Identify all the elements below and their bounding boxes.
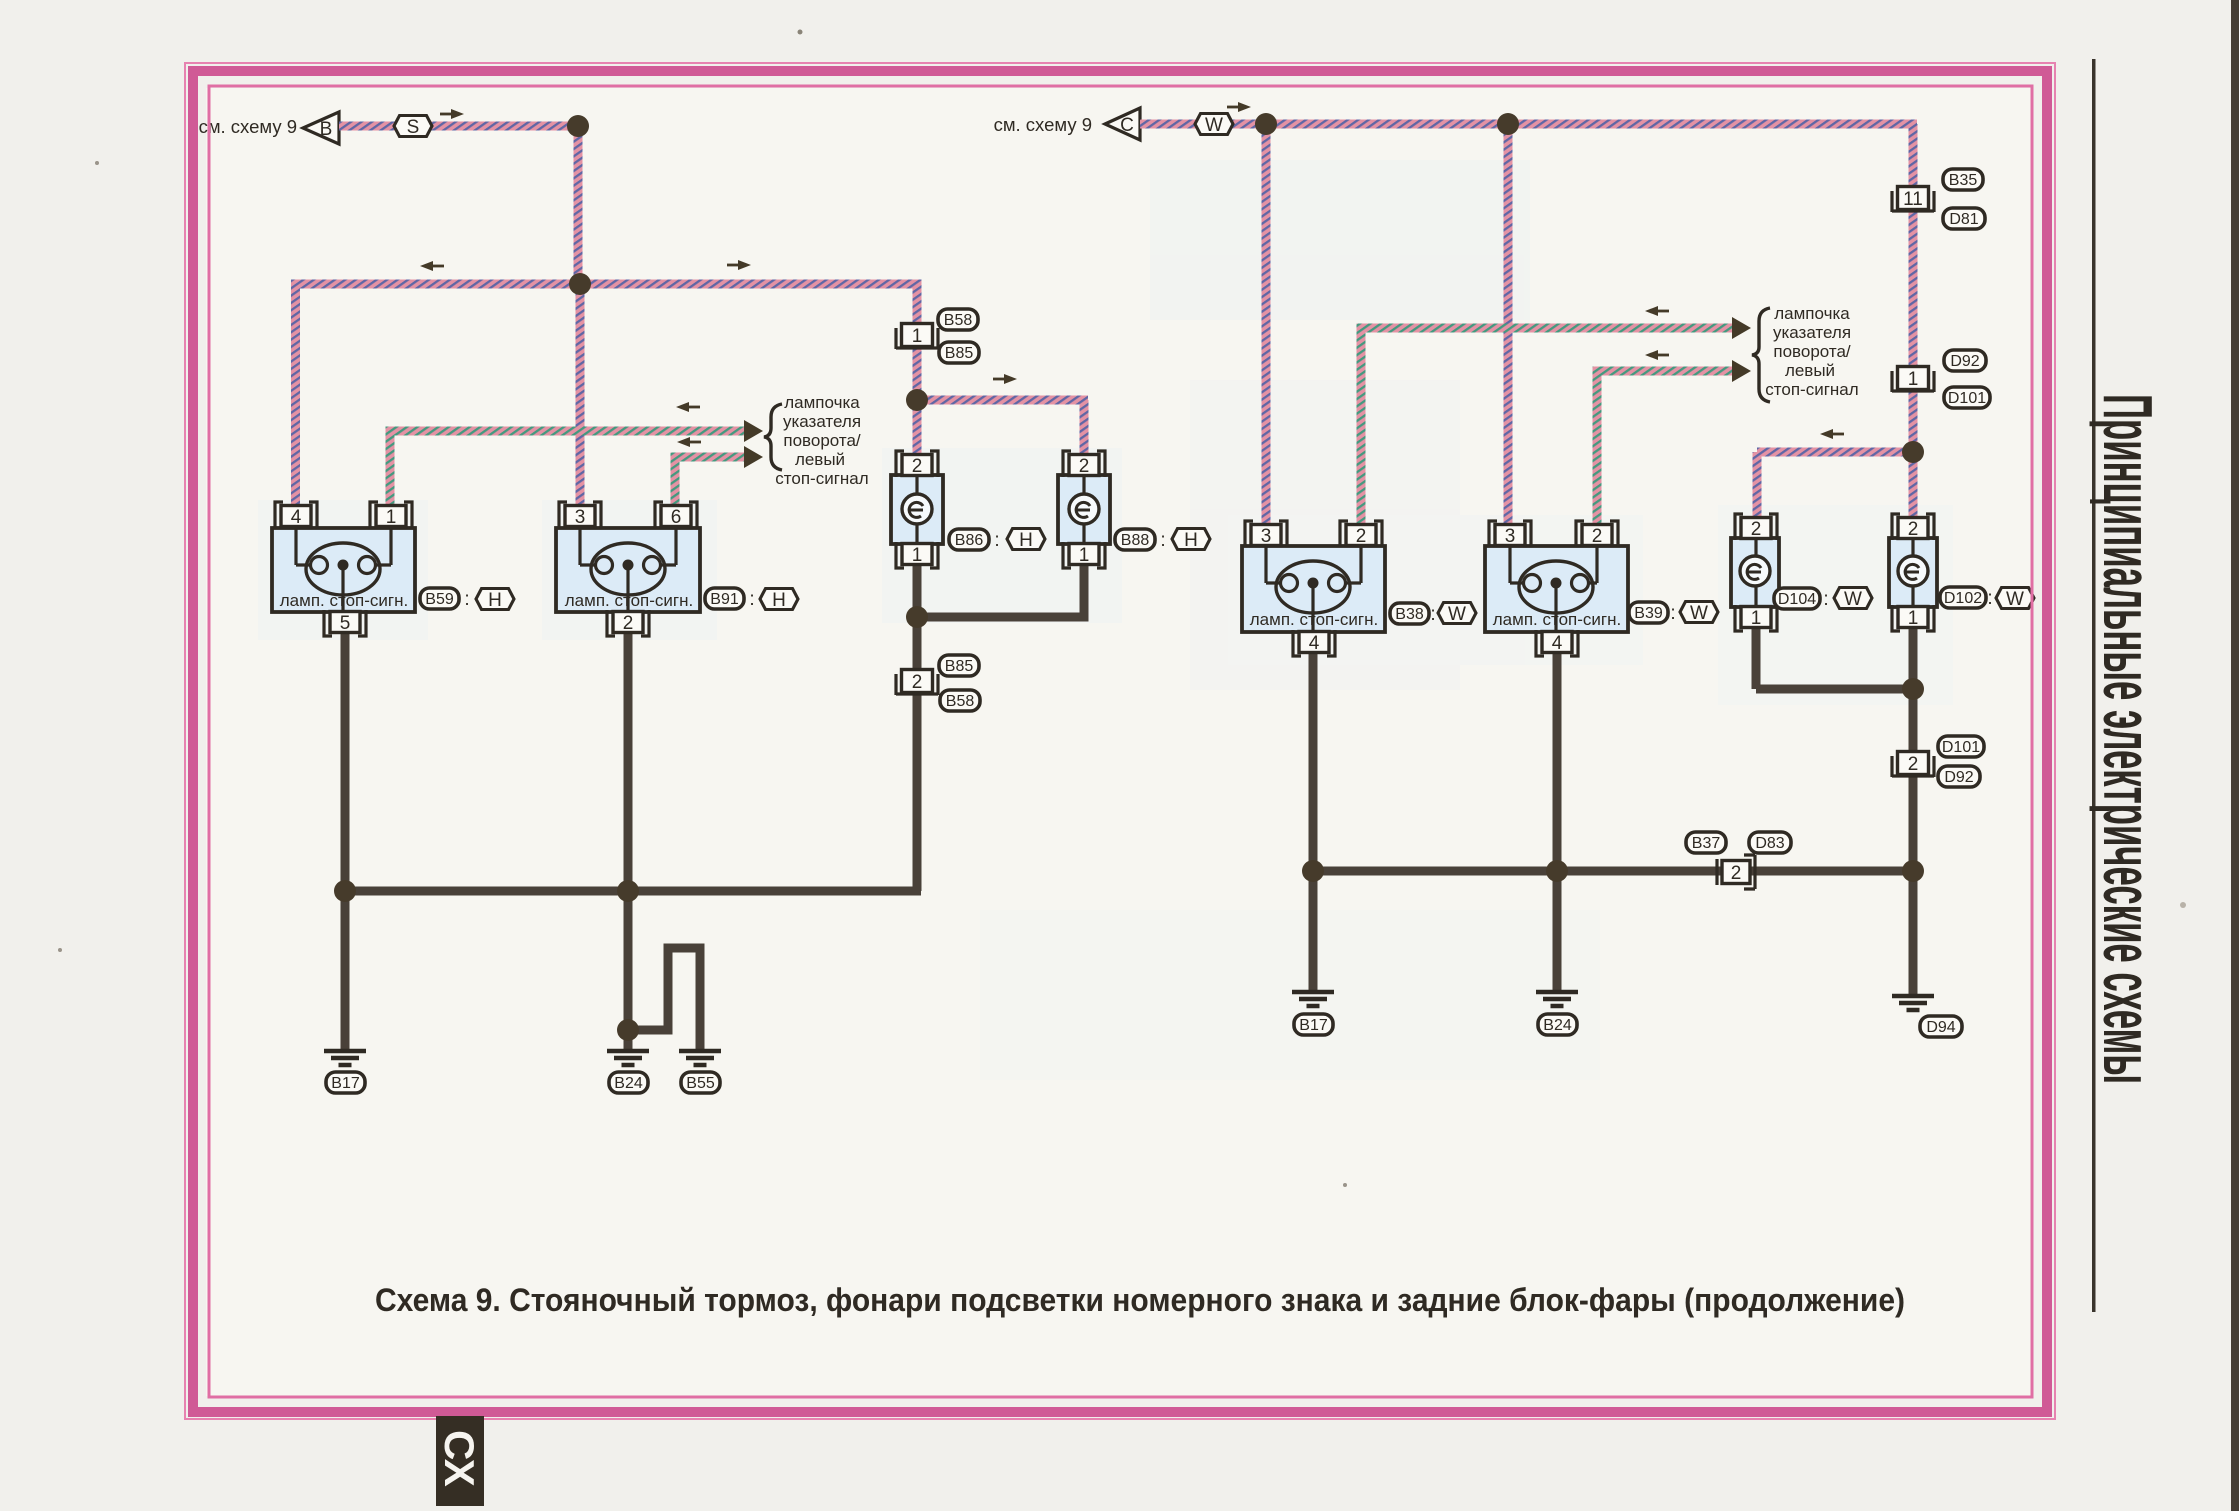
svg-text:C: C bbox=[1120, 115, 1134, 136]
node J6 bbox=[617, 880, 639, 902]
svg-text:B: B bbox=[320, 119, 333, 140]
pin 6 of B91 bbox=[655, 502, 697, 528]
ground B24 (left) bbox=[607, 1051, 649, 1065]
wire: left branch down to B59 pin 4 bbox=[291, 284, 300, 508]
pin 2 of D102 bbox=[1892, 514, 1934, 540]
node JE bbox=[1902, 860, 1924, 882]
pin 3 of B39 bbox=[1489, 521, 1531, 547]
harness hexagon H for B59 bbox=[476, 589, 514, 612]
svg-text:4: 4 bbox=[291, 507, 302, 528]
svg-text:B35: B35 bbox=[1949, 172, 1978, 189]
black wire: connector down to JE bbox=[1909, 773, 1918, 871]
lamp unit B91 (stop-signal lamp) bbox=[556, 528, 700, 612]
svg-text:стоп-сигнал: стоп-сигнал bbox=[775, 469, 868, 488]
pink frame inner thin line bbox=[209, 86, 2032, 1397]
svg-text:1: 1 bbox=[386, 507, 397, 528]
wire: JW2 down to B39 pin 3 bbox=[1504, 124, 1513, 525]
svg-text:B24: B24 bbox=[1543, 1017, 1572, 1034]
black wire: J4 down to connector B85/B58 bbox=[913, 617, 922, 673]
ground B17 (left) bbox=[324, 1051, 366, 1065]
svg-text:D94: D94 bbox=[1926, 1019, 1955, 1036]
svg-text:2: 2 bbox=[1592, 526, 1603, 547]
wire: right column down through connectors to D102 pin 2 bbox=[1909, 124, 1918, 520]
wire: top feed from C to right corner (pink/blue) bbox=[1140, 120, 1917, 129]
svg-text:указателя: указателя bbox=[783, 412, 861, 431]
wire: right branch down through connector B58/B85 to J3 bbox=[913, 284, 922, 402]
arrow left above pin-1 wire bbox=[676, 402, 700, 412]
scanner dark right edge bbox=[2231, 0, 2239, 1511]
svg-text:6: 6 bbox=[671, 507, 682, 528]
svg-text:3: 3 bbox=[1261, 526, 1272, 547]
background paper inside frame bbox=[206, 88, 2033, 1396]
harness hexagon W for D102 bbox=[1996, 588, 2034, 611]
svg-text:см. схему 9: см. схему 9 bbox=[994, 114, 1092, 135]
svg-text:S: S bbox=[407, 117, 420, 138]
brace grouping lamp destination (right) bbox=[1752, 308, 1770, 402]
pin 2 of B39 bbox=[1576, 521, 1618, 547]
svg-text:B17: B17 bbox=[331, 1075, 360, 1092]
destination label text (left) bbox=[775, 393, 868, 488]
svg-text:1: 1 bbox=[1908, 369, 1919, 390]
svg-text:W: W bbox=[1844, 589, 1862, 610]
label D83 bbox=[1749, 832, 1791, 853]
net marker hexagon W bbox=[1195, 114, 1233, 137]
svg-text:2: 2 bbox=[912, 672, 923, 693]
pin 4 of B39 bbox=[1536, 630, 1578, 656]
connector label B86 bbox=[949, 529, 989, 550]
label B37 bbox=[1686, 832, 1726, 853]
svg-text:ламп. стоп-сигн.: ламп. стоп-сигн. bbox=[565, 591, 693, 610]
faint scan bleed-through blobs (decorative) bbox=[258, 160, 1953, 1080]
node J5 bbox=[334, 880, 356, 902]
svg-text:B24: B24 bbox=[614, 1075, 643, 1092]
svg-text:СХ: СХ bbox=[436, 1430, 483, 1487]
svg-text:5: 5 bbox=[340, 613, 351, 634]
harness hexagon W for D104 bbox=[1834, 588, 1872, 611]
wire: B91 pin 6 up and right to stop-lamp arrow (pink/green) bbox=[671, 457, 680, 508]
svg-text:B59: B59 bbox=[425, 591, 454, 608]
svg-text:ламп. стоп-сигн.: ламп. стоп-сигн. bbox=[1493, 610, 1621, 629]
svg-text:B88: B88 bbox=[1121, 532, 1150, 549]
harness hexagon W for B39 bbox=[1680, 602, 1718, 625]
wire: J1 down to J2 bbox=[574, 126, 583, 284]
pin 2 of B86 bbox=[896, 451, 938, 477]
svg-text:Схема 9. Стояночный тормоз, фо: Схема 9. Стояночный тормоз, фонари подсв… bbox=[375, 1282, 1905, 1318]
svg-text:2: 2 bbox=[1079, 456, 1090, 477]
net marker hexagon S bbox=[394, 116, 432, 139]
arrow left on distribution wire bbox=[420, 261, 444, 271]
svg-text:поворота/: поворота/ bbox=[783, 431, 861, 450]
lamp unit B39 (stop-signal lamp) bbox=[1485, 546, 1628, 632]
svg-text::: : bbox=[1670, 603, 1675, 624]
connector label B88 bbox=[1115, 529, 1155, 550]
svg-text:2: 2 bbox=[1908, 519, 1919, 540]
black wire: J4 link horizontal bbox=[917, 613, 1089, 622]
svg-text:B17: B17 bbox=[1299, 1017, 1328, 1034]
svg-text::: : bbox=[1823, 589, 1828, 610]
svg-text:B37: B37 bbox=[1692, 835, 1721, 852]
svg-text:D102: D102 bbox=[1944, 590, 1982, 607]
svg-text:3: 3 bbox=[575, 507, 586, 528]
node J1 bbox=[567, 115, 589, 137]
node JW1 bbox=[1255, 113, 1277, 135]
svg-text:поворота/: поворота/ bbox=[1773, 342, 1851, 361]
off-page triangle C bbox=[1105, 108, 1140, 140]
label D92 bbox=[1944, 350, 1986, 371]
pink frame outer thin line bbox=[185, 63, 2055, 1419]
license lamp B86 bbox=[891, 475, 943, 544]
node J4 bbox=[906, 606, 928, 628]
svg-text:H: H bbox=[1019, 530, 1033, 551]
inline connector 1 D92:D101 bbox=[1892, 367, 1934, 393]
black ground bus (left) bbox=[345, 887, 921, 896]
node bus-B39 bbox=[1546, 860, 1568, 882]
harness hexagon H for B86 bbox=[1007, 529, 1045, 552]
wire: B39 pin 2 up and right to stop-lamp arrow (pink/green) bbox=[1593, 371, 1602, 525]
pin 2 of B38 bbox=[1340, 521, 1382, 547]
black ground bus (right) bbox=[1313, 867, 1913, 876]
svg-text:W: W bbox=[1448, 604, 1466, 625]
svg-text:стоп-сигнал: стоп-сигнал bbox=[1765, 380, 1858, 399]
svg-text:W: W bbox=[2006, 589, 2024, 610]
svg-text:4: 4 bbox=[1552, 633, 1563, 654]
node JW2 bbox=[1497, 113, 1519, 135]
connector label B38 bbox=[1390, 603, 1429, 624]
connector label D104 bbox=[1774, 588, 1820, 609]
svg-text:B86: B86 bbox=[955, 532, 984, 549]
svg-text:B85: B85 bbox=[945, 658, 974, 675]
label B85 (upper) bbox=[939, 655, 979, 676]
ground B24 (right) bbox=[1536, 992, 1578, 1006]
connector label B59 bbox=[420, 588, 459, 609]
black wire: B59 pin 5 down to ground bus bbox=[341, 631, 350, 891]
svg-text:D101: D101 bbox=[1948, 390, 1986, 407]
ground B55 (left) bbox=[679, 1051, 721, 1065]
svg-text:D92: D92 bbox=[1950, 353, 1979, 370]
wire: branch down to B88 pin 2 bbox=[1080, 400, 1089, 457]
svg-text:левый: левый bbox=[1785, 361, 1835, 380]
svg-text::: : bbox=[1160, 530, 1165, 551]
svg-text:B38: B38 bbox=[1395, 606, 1424, 623]
harness hexagon H for B91 bbox=[760, 589, 798, 612]
inline connector 11 B35:D81 bbox=[1892, 187, 1934, 213]
black wire: B88 pin 1 down to J4 link bbox=[1080, 562, 1089, 619]
svg-text:B58: B58 bbox=[946, 693, 975, 710]
black wire: connector down to ground bus corner bbox=[913, 691, 922, 891]
off-page arrow to stop lamp (lower) bbox=[744, 446, 763, 468]
pin 1 of B88 bbox=[1063, 542, 1105, 568]
svg-text:H: H bbox=[1184, 530, 1198, 551]
license lamp B88 bbox=[1058, 475, 1110, 544]
label B85 (lower) bbox=[939, 342, 979, 363]
label B58 (upper) bbox=[938, 309, 978, 330]
svg-text:левый: левый bbox=[795, 450, 845, 469]
dust specks bbox=[798, 30, 803, 35]
connector label B39 bbox=[1629, 602, 1668, 623]
arrow left above B38 pin-2 wire bbox=[1645, 306, 1669, 316]
license lamp D104 bbox=[1731, 538, 1779, 607]
svg-text:лампочка: лампочка bbox=[1774, 304, 1850, 323]
pin 5 of B59 bbox=[324, 610, 366, 636]
wire: J3 down to B86 pin 2 bbox=[913, 400, 922, 457]
wire: JW1 down to B38 pin 3 bbox=[1262, 124, 1271, 525]
svg-text:B39: B39 bbox=[1634, 605, 1663, 622]
inline connector 1 B58:B85 bbox=[896, 324, 938, 350]
wire: entry B to node J1 (pink/blue) bbox=[339, 122, 579, 131]
off-page arrow to turn lamp (upper) bbox=[744, 420, 763, 442]
connector label D102 bbox=[1940, 587, 1986, 608]
black wire: B38 pin 4 down to bus and ground bbox=[1309, 651, 1318, 992]
wire: B59 pin 1 up and right to turn-lamp arrow (pink/green) bbox=[386, 431, 395, 508]
arrow left above pin-6 wire bbox=[677, 437, 701, 447]
label B58 (lower) bbox=[940, 690, 980, 711]
license lamp D102 bbox=[1889, 538, 1937, 607]
CX tab (bottom left) bbox=[436, 1416, 484, 1506]
black wire: D102 pin 1 down to JD and connector D101:D92 bbox=[1909, 626, 1918, 753]
node JD bbox=[1902, 678, 1924, 700]
pin 1 of D104 bbox=[1735, 605, 1777, 631]
lamp unit B38 (stop-signal lamp) bbox=[1242, 546, 1385, 632]
svg-text:B55: B55 bbox=[686, 1075, 715, 1092]
svg-text:1: 1 bbox=[1079, 545, 1090, 566]
svg-text:11: 11 bbox=[1903, 189, 1923, 210]
label D81 bbox=[1943, 208, 1985, 229]
black wire: J6 down to J7 and ground B24 bbox=[624, 891, 633, 1051]
black hook wire to ground B55 bbox=[628, 948, 700, 1051]
brace grouping lamp destination bbox=[764, 404, 782, 470]
svg-text:ламп. стоп-сигн.: ламп. стоп-сигн. bbox=[1250, 610, 1378, 629]
svg-text:2: 2 bbox=[1908, 754, 1919, 775]
svg-text:D92: D92 bbox=[1944, 769, 1973, 786]
svg-text:D83: D83 bbox=[1755, 835, 1784, 852]
svg-text:1: 1 bbox=[912, 545, 923, 566]
wire: B38 pin 2 up and right to turn-lamp arrow (pink/green) bbox=[1357, 328, 1366, 525]
pin 3 of B91 bbox=[559, 502, 601, 528]
svg-text:Принципиальные электрические с: Принципиальные электрические схемы bbox=[2089, 394, 2167, 1084]
svg-text:2: 2 bbox=[623, 613, 634, 634]
svg-text:3: 3 bbox=[1505, 526, 1516, 547]
pin 2 of B88 bbox=[1063, 451, 1105, 477]
svg-text::: : bbox=[994, 530, 999, 551]
black wire: B91 pin 2 down to ground bus bbox=[624, 631, 633, 891]
sidebar separator line bbox=[2092, 59, 2096, 1312]
svg-text:ламп. стоп-сигн.: ламп. стоп-сигн. bbox=[280, 591, 408, 610]
black wire: J5 down to ground B17 bbox=[341, 891, 350, 1051]
node J7 bbox=[617, 1019, 639, 1041]
black wire: B86 pin 1 down to J4 bbox=[913, 562, 922, 619]
pin 2 of B91 bbox=[607, 610, 649, 636]
inline connector 2 B85:B58 bbox=[896, 670, 938, 696]
svg-text::: : bbox=[1987, 588, 1992, 609]
harness hexagon W for B38 bbox=[1438, 603, 1476, 626]
arrow left above B39 pin-2 wire bbox=[1645, 350, 1669, 360]
ground D94 bbox=[1892, 996, 1934, 1010]
off-page arrow to turn lamp (right upper) bbox=[1732, 317, 1751, 339]
black wire: D104 pin 1 down and right to JD bbox=[1752, 626, 1761, 689]
svg-text:W: W bbox=[1205, 115, 1223, 136]
wire: J2 down to B91 pin 3 bbox=[576, 284, 585, 508]
svg-text::: : bbox=[1430, 604, 1435, 625]
black wire: B39 pin 4 down to bus and ground bbox=[1553, 651, 1562, 992]
svg-text:W: W bbox=[1690, 603, 1708, 624]
inline connector 2 B37:D83 on ground bus bbox=[1717, 855, 1755, 889]
arrow left above JR branch bbox=[1820, 429, 1844, 439]
node bus-B38 bbox=[1302, 860, 1324, 882]
svg-text:1: 1 bbox=[1908, 608, 1919, 629]
destination label text (right) bbox=[1765, 304, 1858, 399]
harness hexagon H for B88 bbox=[1172, 529, 1210, 552]
arrow right on J3 branch bbox=[993, 374, 1017, 384]
svg-text::: : bbox=[749, 589, 754, 610]
svg-text:2: 2 bbox=[1356, 526, 1367, 547]
pin 4 of B38 bbox=[1293, 630, 1335, 656]
arrow right on distribution wire bbox=[727, 260, 751, 270]
svg-text:указателя: указателя bbox=[1773, 323, 1851, 342]
lamp unit B59 (stop-signal lamp) bbox=[272, 528, 415, 612]
off-page arrow to stop lamp (right lower) bbox=[1732, 360, 1751, 382]
svg-text:см. схему 9: см. схему 9 bbox=[199, 116, 297, 137]
node J2 bbox=[569, 273, 591, 295]
pin 3 of B38 bbox=[1245, 521, 1287, 547]
pin 2 of D104 bbox=[1735, 514, 1777, 540]
arrow right on S wire bbox=[440, 109, 464, 119]
svg-text:H: H bbox=[772, 590, 786, 611]
pin 1 of B59 bbox=[370, 502, 412, 528]
svg-text:D101: D101 bbox=[1942, 739, 1980, 756]
svg-text:1: 1 bbox=[912, 326, 923, 347]
wire: horizontal distribution y=284 bbox=[291, 280, 922, 289]
black wire: JE down to ground D94 bbox=[1909, 875, 1918, 996]
label D101 (upper) bbox=[1938, 736, 1984, 757]
pin 1 of D102 bbox=[1892, 605, 1934, 631]
pin 4 of B59 bbox=[275, 502, 317, 528]
ground B17 (right) bbox=[1292, 992, 1334, 1006]
connector label B91 bbox=[705, 588, 744, 609]
svg-text:2: 2 bbox=[912, 456, 923, 477]
label B35 bbox=[1943, 169, 1983, 190]
svg-text:D81: D81 bbox=[1949, 211, 1978, 228]
svg-text:4: 4 bbox=[1309, 633, 1320, 654]
label D101 bbox=[1944, 387, 1990, 408]
svg-text:2: 2 bbox=[1751, 519, 1762, 540]
svg-text:B58: B58 bbox=[944, 312, 973, 329]
svg-text::: : bbox=[464, 589, 469, 610]
wire: J3 branch right to B88 bbox=[917, 396, 1088, 405]
svg-text:лампочка: лампочка bbox=[784, 393, 860, 412]
svg-text:H: H bbox=[488, 590, 502, 611]
arrow right after hexagon W bbox=[1227, 102, 1251, 112]
off-page triangle B bbox=[303, 112, 339, 144]
node J3 bbox=[906, 389, 928, 411]
label D92 (lower) bbox=[1938, 766, 1980, 787]
pin 1 of B86 bbox=[896, 542, 938, 568]
node JR bbox=[1902, 441, 1924, 463]
svg-text:1: 1 bbox=[1751, 608, 1762, 629]
wire: JR left branch to D104 bbox=[1757, 448, 1913, 457]
inline connector 2 D101:D92 bbox=[1892, 752, 1934, 778]
svg-text:B91: B91 bbox=[710, 591, 739, 608]
svg-text:D104: D104 bbox=[1778, 591, 1816, 608]
svg-text:B85: B85 bbox=[945, 345, 974, 362]
svg-text:2: 2 bbox=[1731, 863, 1742, 884]
pink frame thick band bbox=[193, 71, 2047, 1412]
